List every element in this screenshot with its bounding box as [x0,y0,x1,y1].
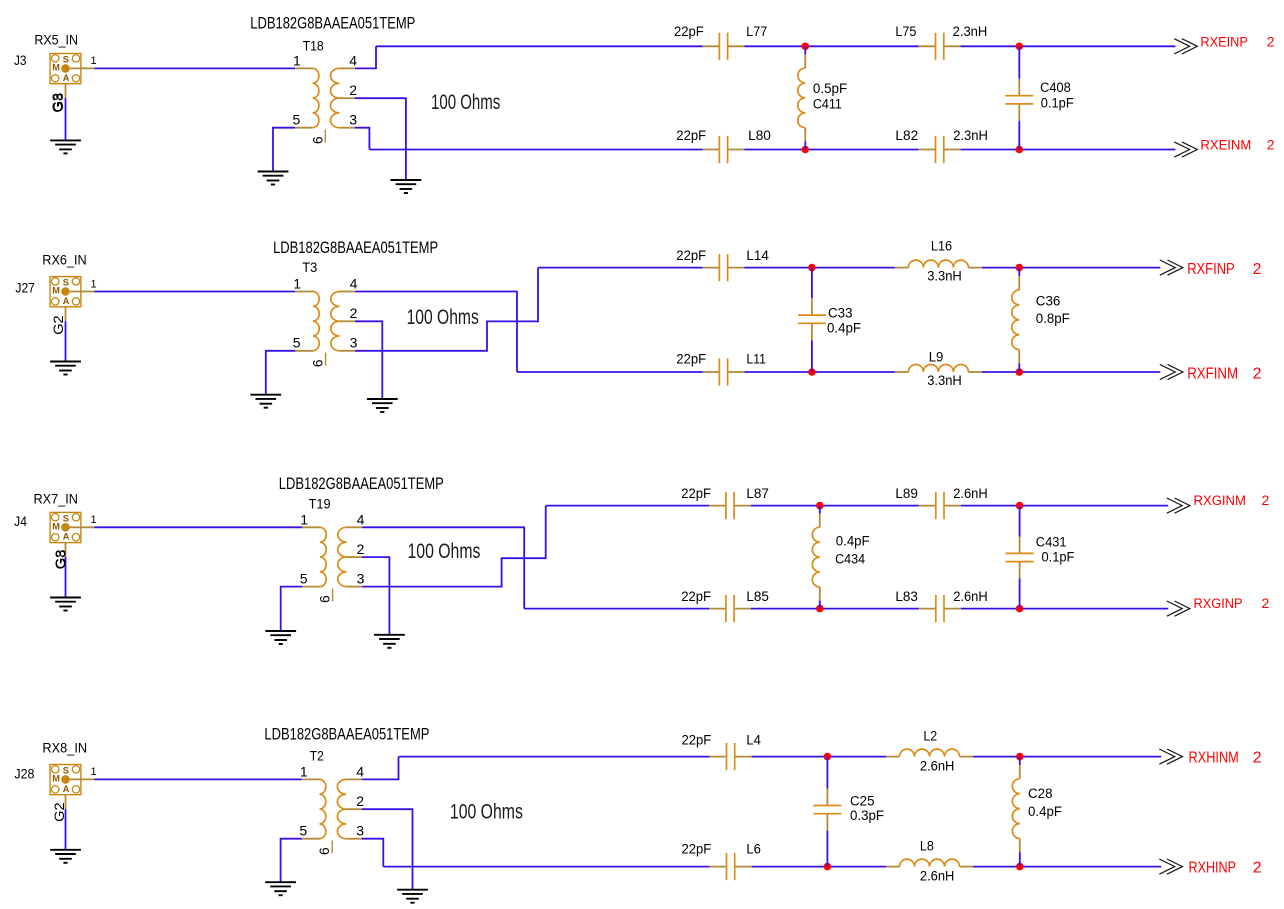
svg-text:C411: C411 [813,97,842,113]
svg-text:1: 1 [293,276,301,292]
svg-text:L6: L6 [746,842,761,858]
svg-text:G8: G8 [54,549,70,569]
svg-text:2: 2 [1253,261,1262,278]
svg-text:6: 6 [309,136,325,144]
svg-text:G2: G2 [51,315,67,335]
svg-text:C28: C28 [1028,786,1053,802]
svg-text:L80: L80 [748,128,771,144]
svg-text:6: 6 [317,595,333,603]
svg-text:L2: L2 [923,729,937,745]
svg-text:J28: J28 [14,767,34,783]
svg-text:C408: C408 [1040,80,1071,96]
svg-text:L14: L14 [746,248,769,264]
svg-text:LDB182G8BAAEA051TEMP: LDB182G8BAAEA051TEMP [250,14,415,33]
svg-text:0.1pF: 0.1pF [1042,549,1075,565]
svg-text:4: 4 [356,763,364,779]
svg-text:L83: L83 [895,589,918,605]
svg-text:2: 2 [1267,34,1275,50]
svg-text:RXFINM: RXFINM [1187,366,1238,383]
svg-text:J4: J4 [14,514,27,530]
svg-text:22pF: 22pF [676,248,706,264]
svg-text:RX8_IN: RX8_IN [42,740,87,756]
svg-text:L77: L77 [746,24,767,40]
svg-text:5: 5 [293,112,301,128]
svg-text:LDB182G8BAAEA051TEMP: LDB182G8BAAEA051TEMP [264,725,429,744]
svg-text:2.3nH: 2.3nH [953,24,988,40]
svg-text:3: 3 [356,823,364,839]
svg-text:T19: T19 [309,496,331,512]
svg-text:2.6nH: 2.6nH [920,869,955,885]
svg-text:L4: L4 [746,733,761,749]
svg-text:6: 6 [316,847,332,855]
svg-text:T2: T2 [310,749,324,765]
svg-text:T3: T3 [302,260,317,276]
svg-text:4: 4 [350,276,358,292]
svg-text:2: 2 [1253,366,1262,383]
svg-text:RXEINP: RXEINP [1200,34,1248,50]
svg-text:4: 4 [349,52,357,68]
svg-text:1: 1 [91,514,97,526]
svg-text:100 Ohms: 100 Ohms [408,540,481,563]
svg-text:22pF: 22pF [676,351,706,367]
svg-text:RXFINP: RXFINP [1187,261,1235,278]
svg-text:100 Ohms: 100 Ohms [450,800,523,823]
svg-text:2.6nH: 2.6nH [953,589,988,605]
svg-text:L11: L11 [746,351,766,367]
svg-text:5: 5 [299,823,307,839]
svg-text:2: 2 [1267,137,1275,153]
svg-text:1: 1 [293,52,301,68]
svg-text:1: 1 [300,511,308,527]
svg-text:22pF: 22pF [676,128,706,144]
svg-text:2: 2 [1262,492,1270,508]
svg-text:S: S [63,278,69,288]
svg-text:2: 2 [356,793,364,809]
svg-text:J3: J3 [14,53,27,69]
svg-text:2: 2 [1262,595,1270,611]
svg-text:6: 6 [310,359,326,367]
svg-text:1: 1 [91,766,97,778]
svg-text:RX7_IN: RX7_IN [34,491,78,507]
svg-text:0.1pF: 0.1pF [1041,96,1074,112]
svg-text:A: A [63,73,70,83]
svg-text:G2: G2 [52,802,68,822]
svg-text:L87: L87 [746,486,769,502]
svg-text:C36: C36 [1036,293,1061,309]
svg-text:2: 2 [357,541,365,557]
svg-text:22pF: 22pF [681,589,711,605]
svg-text:L75: L75 [895,24,916,40]
svg-text:2.6nH: 2.6nH [920,759,955,775]
svg-text:S: S [63,513,69,523]
svg-text:100 Ohms: 100 Ohms [407,306,479,329]
svg-text:2: 2 [349,82,357,98]
svg-text:100 Ohms: 100 Ohms [431,91,500,114]
svg-text:C33: C33 [828,306,853,322]
svg-text:RXHINM: RXHINM [1189,750,1239,767]
svg-text:RXHINP: RXHINP [1189,860,1237,877]
svg-text:2: 2 [350,305,358,321]
svg-text:G8: G8 [51,93,67,113]
svg-text:LDB182G8BAAEA051TEMP: LDB182G8BAAEA051TEMP [273,238,438,257]
svg-text:2.6nH: 2.6nH [953,486,988,502]
svg-text:RXGINP: RXGINP [1194,595,1243,611]
svg-text:A: A [63,532,70,542]
svg-text:2.3nH: 2.3nH [953,128,988,144]
svg-text:3.3nH: 3.3nH [927,269,962,285]
svg-text:RX5_IN: RX5_IN [34,32,78,48]
svg-text:0.5pF: 0.5pF [813,81,848,97]
svg-text:3: 3 [350,335,358,351]
svg-text:0.4pF: 0.4pF [836,534,870,550]
svg-text:4: 4 [357,511,365,527]
svg-text:L89: L89 [895,486,918,502]
svg-text:L16: L16 [931,239,952,255]
svg-text:C434: C434 [835,552,865,568]
svg-text:0.3pF: 0.3pF [850,808,884,824]
svg-text:3: 3 [357,570,365,586]
svg-text:L8: L8 [920,839,934,855]
svg-text:RX6_IN: RX6_IN [42,252,86,268]
svg-text:L85: L85 [746,589,769,605]
svg-text:J27: J27 [15,281,35,297]
svg-text:M: M [52,774,60,784]
svg-text:L82: L82 [895,128,918,144]
svg-text:RXGINM: RXGINM [1194,492,1246,508]
svg-text:T18: T18 [303,38,324,54]
svg-text:RXEINM: RXEINM [1200,137,1251,153]
svg-text:2: 2 [1253,750,1262,767]
svg-text:22pF: 22pF [682,842,712,858]
svg-text:3: 3 [349,112,357,128]
svg-text:M: M [52,522,60,532]
svg-text:A: A [63,784,70,794]
svg-text:0.8pF: 0.8pF [1036,311,1070,327]
svg-text:S: S [63,766,69,776]
svg-text:A: A [63,296,70,306]
svg-text:5: 5 [300,570,308,586]
svg-text:3.3nH: 3.3nH [927,373,962,389]
svg-text:0.4pF: 0.4pF [1028,804,1062,820]
svg-text:22pF: 22pF [674,24,704,40]
svg-text:S: S [63,55,69,65]
svg-text:LDB182G8BAAEA051TEMP: LDB182G8BAAEA051TEMP [279,474,444,493]
svg-text:1: 1 [300,763,308,779]
svg-text:1: 1 [91,278,97,290]
svg-text:L9: L9 [929,349,944,365]
svg-text:2: 2 [1253,860,1262,877]
svg-text:22pF: 22pF [682,733,712,749]
svg-text:5: 5 [293,335,301,351]
svg-text:M: M [52,286,60,296]
svg-text:0.4pF: 0.4pF [827,321,861,337]
svg-text:C431: C431 [1036,535,1067,551]
svg-text:M: M [52,63,60,73]
svg-text:1: 1 [91,55,97,67]
svg-text:C25: C25 [850,793,875,809]
svg-text:22pF: 22pF [681,486,711,502]
